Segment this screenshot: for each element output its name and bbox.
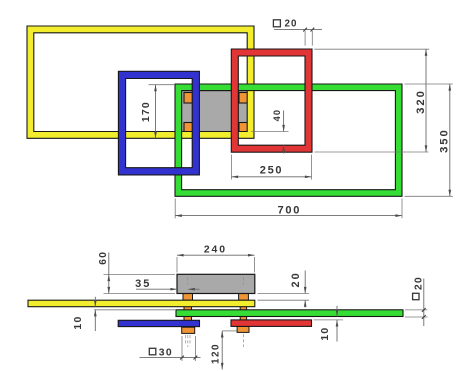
svg-text:10: 10 bbox=[320, 327, 331, 341]
svg-text:20: 20 bbox=[413, 276, 424, 290]
dimension 700 bbox=[175, 199, 402, 219]
bolt square top-right (top view) bbox=[239, 93, 250, 104]
left bolt upper block (side view) bbox=[183, 294, 193, 301]
dimension 20 (plate to yellow gap) bbox=[258, 271, 310, 308]
red frame (top view) bbox=[231, 49, 312, 152]
svg-text:170: 170 bbox=[141, 101, 152, 122]
svg-text:60: 60 bbox=[98, 251, 109, 265]
yellow frame (top view) bbox=[27, 26, 254, 138]
dimension 350 bbox=[405, 84, 453, 196]
right bolt nut (side view) bbox=[237, 327, 249, 333]
svg-text:10: 10 bbox=[73, 315, 84, 329]
svg-text:20: 20 bbox=[290, 271, 302, 287]
right bolt shaft (side view) bbox=[240, 295, 246, 328]
dimension 250 bbox=[232, 155, 312, 180]
dimension 10 (right, green to red gap) bbox=[314, 306, 344, 342]
red bar (side view) bbox=[231, 320, 312, 327]
green bar (side view) bbox=[176, 310, 403, 317]
left bolt shaft (side view) bbox=[184, 295, 192, 328]
yellow bar (side view) bbox=[28, 300, 255, 307]
left bolt hidden hole lines bbox=[185, 335, 187, 345]
dimension 240 bbox=[177, 244, 255, 272]
green frame (top view) bbox=[175, 84, 402, 196]
dimension "square 20" top bbox=[273, 19, 322, 46]
dimension 60 bbox=[98, 251, 175, 294]
dimension 320 bbox=[314, 49, 429, 152]
bolt square top-left (top view) bbox=[184, 93, 195, 104]
dimension square 30 bbox=[140, 336, 201, 361]
left bolt centerline bbox=[187, 277, 189, 285]
left bolt nut (side view) bbox=[182, 327, 195, 333]
gray plate (top view) bbox=[182, 91, 251, 137]
svg-text:120: 120 bbox=[210, 343, 221, 364]
svg-text:350: 350 bbox=[439, 128, 451, 153]
right bolt centerline bbox=[242, 277, 244, 285]
dimension 40 bbox=[251, 109, 289, 154]
dimension square 20 (right, green thickness) bbox=[405, 276, 428, 326]
bolt square bottom-right (top view) bbox=[239, 123, 250, 134]
svg-text:250: 250 bbox=[260, 165, 283, 177]
svg-text:30: 30 bbox=[159, 347, 173, 358]
bolt square bottom-left (top view) bbox=[184, 123, 195, 134]
gray plate (side view) bbox=[177, 274, 255, 293]
svg-text:40: 40 bbox=[272, 109, 282, 122]
dimension 10 (left, yellow to green gap) bbox=[73, 297, 175, 331]
svg-text:700: 700 bbox=[277, 205, 301, 217]
svg-text:35: 35 bbox=[135, 278, 151, 290]
dimension 170 bbox=[141, 85, 174, 139]
dimension 35 bbox=[135, 278, 199, 291]
svg-text:320: 320 bbox=[415, 89, 427, 114]
dimension 120 bbox=[210, 331, 237, 370]
right bolt upper block (side view) bbox=[239, 294, 249, 301]
blue frame (top view) bbox=[118, 71, 199, 175]
blue bar (side view) bbox=[118, 320, 199, 326]
svg-text:20: 20 bbox=[285, 19, 298, 30]
svg-text:240: 240 bbox=[204, 244, 227, 255]
